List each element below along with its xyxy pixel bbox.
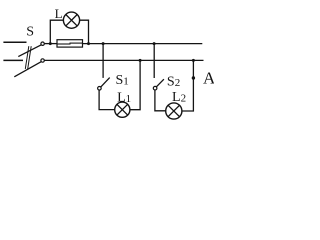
node: junction dot branch 1 return on second feeder — [139, 59, 142, 62]
node: junction dot left of fuse (lamp L branch) — [49, 42, 52, 45]
node: junction dot branch 2 return on second feeder — [192, 59, 195, 62]
node: junction dot branch 2 on top feeder — [153, 42, 156, 45]
wire: lamp L parallel branch (up, across, down) — [50, 20, 63, 43]
node: junction dot right of fuse — [87, 42, 90, 45]
wire: source terminal top (live lead from left edge) — [3, 41, 26, 43]
wire: lamp L1 to second feeder — [130, 60, 140, 109]
svg-text:S1: S1 — [116, 73, 129, 88]
lamp L — [63, 12, 79, 28]
fuse (rectangle with wire through) — [57, 40, 83, 47]
lamp L2 — [166, 103, 182, 119]
lamp L1 — [115, 102, 130, 117]
wire: branch 1 drop from top feeder to switch S1 — [102, 44, 104, 78]
svg-text:A: A — [203, 69, 214, 88]
node: junction dot branch 1 on top feeder — [102, 42, 105, 45]
wire: lamp L right side down to feeder — [80, 20, 89, 43]
wire: source terminal bottom (neutral lead from left edge) — [3, 59, 23, 61]
wire: lamp L2 up to second feeder (through node A) — [182, 60, 194, 111]
wire: switch S2 to lamp L2 — [155, 90, 166, 111]
wire: switch S top contact to fuse — [44, 43, 57, 45]
svg-text:S2: S2 — [167, 75, 180, 90]
node A (marked point on branch 2 return wire) — [192, 76, 195, 79]
svg-text:S: S — [26, 25, 34, 40]
switch S (double-pole knife switch, open) — [14, 42, 44, 77]
wire: branch 2 drop from top feeder to switch S2 — [153, 44, 155, 78]
switch S1 (open blade) — [98, 78, 110, 91]
wire: top feeder from fuse to right end — [83, 43, 203, 45]
wire: switch S1 to lamp L1 — [99, 90, 115, 109]
wire: second feeder from switch S bottom contact to right end — [44, 59, 203, 61]
svg-text:L2: L2 — [172, 90, 186, 105]
svg-text:L: L — [55, 6, 63, 21]
switch S2 (open blade) — [153, 79, 164, 90]
svg-text:L1: L1 — [117, 91, 131, 106]
